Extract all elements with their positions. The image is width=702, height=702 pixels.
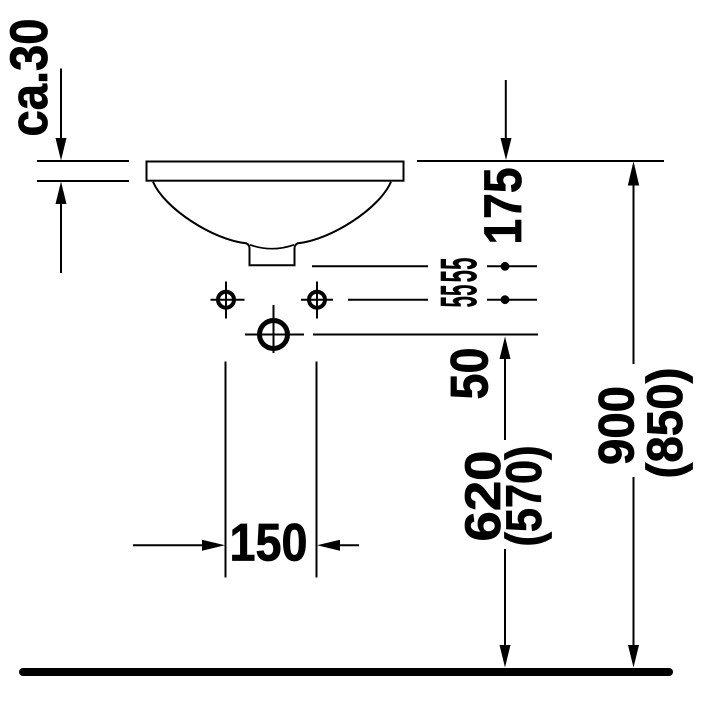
extension line rim top right bbox=[417, 160, 664, 162]
row line drain level right bbox=[487, 265, 537, 267]
faucet hole left circle bbox=[218, 292, 234, 308]
svg-text:150: 150 bbox=[230, 514, 308, 573]
dim 620 line lower bbox=[504, 549, 506, 660]
floor line bbox=[23, 668, 669, 676]
svg-text:55: 55 bbox=[431, 285, 489, 308]
dim 900 arrow down bbox=[628, 645, 639, 668]
dot faucet level bbox=[501, 295, 510, 304]
dot drain level bbox=[501, 262, 510, 271]
dim 900 arrow up bbox=[628, 161, 639, 185]
dim 175 line upper bbox=[505, 80, 507, 145]
dim 150 arrow right-pointing bbox=[202, 540, 225, 551]
extension line rim top left bbox=[37, 160, 129, 162]
dim 150 extension line right bbox=[316, 362, 318, 578]
dim 620 arrow down bbox=[500, 645, 511, 668]
ca.30 arrow up bbox=[56, 182, 67, 205]
faucet hole left crosshair vertical bbox=[225, 282, 227, 319]
row line faucet level left bbox=[348, 299, 428, 301]
drain inner arc bbox=[250, 245, 294, 249]
faucet hole left crosshair horizontal bbox=[211, 299, 245, 301]
dim 900 line upper bbox=[633, 180, 635, 364]
dim 620 line upper bbox=[504, 350, 506, 440]
svg-text:175: 175 bbox=[474, 168, 533, 245]
ca.30 dimension line lower bbox=[60, 195, 62, 273]
extension line rim bottom left bbox=[37, 180, 129, 182]
faucet hole right crosshair horizontal bbox=[301, 299, 333, 301]
svg-text:55: 55 bbox=[431, 258, 489, 283]
dim 150 extension line left bbox=[225, 362, 227, 578]
svg-text:ca.30: ca.30 bbox=[0, 19, 59, 137]
faucet hole right circle bbox=[309, 292, 325, 308]
row line faucet level right bbox=[487, 299, 537, 301]
ca.30 dimension line upper bbox=[60, 69, 62, 151]
faucet hole right crosshair vertical bbox=[316, 282, 318, 319]
basin rim bbox=[147, 162, 404, 181]
center hole crosshair horizontal bbox=[245, 334, 304, 336]
center hole crosshair vertical bbox=[273, 305, 275, 353]
svg-text:(570): (570) bbox=[496, 446, 552, 547]
row line center hole level bbox=[313, 334, 538, 336]
dim 900 line lower bbox=[633, 477, 635, 660]
ca.30 arrow down bbox=[56, 138, 67, 161]
dim 150 tail right bbox=[340, 544, 359, 546]
svg-text:(850): (850) bbox=[637, 368, 693, 479]
dim 50 arrow up bbox=[500, 337, 511, 360]
row line drain level left bbox=[312, 265, 428, 267]
basin bowl bbox=[153, 182, 391, 265]
dim 175 arrow down bbox=[501, 138, 512, 160]
dim 150 tail left bbox=[133, 544, 202, 546]
center hole circle bbox=[260, 321, 288, 349]
dim 150 arrow left-pointing bbox=[317, 540, 340, 551]
svg-text:50: 50 bbox=[441, 348, 500, 400]
